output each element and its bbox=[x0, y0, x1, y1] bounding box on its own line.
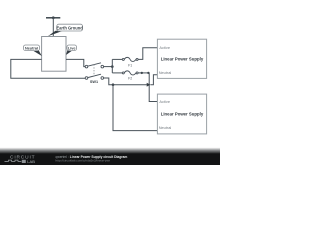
svg-text:Neutral: Neutral bbox=[159, 70, 172, 75]
node fuse feed junction bbox=[111, 65, 114, 68]
wire earth vertical bbox=[52, 18, 54, 37]
switch SW1 (DPST) bbox=[85, 63, 103, 79]
logo CIRCUITLAB bbox=[5, 154, 36, 164]
wire to F2 left bbox=[112, 72, 122, 74]
svg-text:Active: Active bbox=[159, 45, 170, 50]
node F2 out dot b bbox=[147, 72, 149, 74]
wire neutral bus from SW1 bottom pole bbox=[104, 78, 147, 85]
svg-text:F2: F2 bbox=[128, 77, 132, 81]
wire feed vertical bbox=[111, 59, 113, 73]
supply box U2 bbox=[157, 94, 206, 134]
label Earth Ground callout bbox=[48, 24, 83, 36]
svg-text:Earth Ground: Earth Ground bbox=[56, 25, 83, 30]
fuse F2 bbox=[122, 71, 138, 75]
wire to F1 left bbox=[112, 58, 122, 60]
wire down to supply2 Active bbox=[149, 73, 157, 102]
label Live callout bbox=[66, 45, 77, 55]
wire neutral to supply1 bbox=[150, 75, 157, 85]
svg-text:Linear Power Supply: Linear Power Supply bbox=[161, 57, 204, 62]
arrow wire hop bbox=[147, 83, 151, 87]
wire F1 out to supply1 Active bbox=[138, 48, 157, 60]
svg-text:LAB: LAB bbox=[27, 159, 35, 164]
plug body (wall outlet) bbox=[42, 37, 66, 72]
bottom pole arm bbox=[88, 74, 101, 77]
wire neutral run (plug left, down, to SW1 bottom pole) bbox=[11, 59, 86, 78]
earth ground bar bbox=[46, 17, 60, 19]
top pole arm bbox=[88, 63, 101, 66]
svg-text:Linear Power Supply: Linear Power Supply bbox=[161, 111, 204, 116]
svg-text:F1: F1 bbox=[128, 63, 132, 67]
junction dot earth bbox=[52, 16, 55, 19]
svg-text:Neutral: Neutral bbox=[159, 125, 172, 130]
svg-text:SW1: SW1 bbox=[90, 80, 98, 84]
fuse F1 bbox=[122, 57, 138, 61]
wire live run (plug right to SW1 top pole) bbox=[66, 59, 85, 66]
svg-text:Neutral: Neutral bbox=[25, 46, 38, 50]
wire F2 out bbox=[138, 72, 149, 74]
svg-text:http://circuitlab.com/c/nda5v3: http://circuitlab.com/c/nda5v3/linear-pw… bbox=[56, 159, 111, 163]
node neutral bus junction bbox=[112, 83, 115, 86]
wire SW1 top pole to fuse feed bbox=[104, 66, 113, 68]
supply box U1 bbox=[157, 39, 206, 78]
node F2 out dot a bbox=[141, 72, 143, 74]
gang link dashed bbox=[93, 64, 95, 76]
svg-text:Active: Active bbox=[159, 99, 170, 104]
svg-text:Live: Live bbox=[68, 46, 76, 50]
label Neutral callout bbox=[24, 45, 42, 56]
wire neutral down to supply2 bbox=[113, 85, 157, 131]
